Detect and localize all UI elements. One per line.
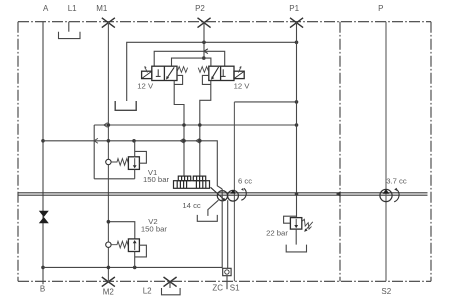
SV1 solenoid arrow [145,67,147,72]
wire: 6cc feed vertical through pump to S1 [233,102,235,281]
svg-text:150 bar: 150 bar [141,225,168,234]
V1 inlet vertical [134,141,136,157]
wire: SV2 outlet down with jog [200,81,211,177]
flow divider block [174,176,210,188]
node dot P1/H5 [295,41,299,45]
V1 spring [111,159,128,166]
arrow on H4 at box [94,138,98,143]
plug X at M1 [102,18,115,28]
svg-text:L1: L1 [68,4,77,13]
SV1 blocked symbol [156,69,161,76]
SV1 flow diagonal [167,67,174,77]
flow arrow on Ha at P2 drop [204,49,208,54]
node dot A line / H4 [41,139,45,143]
ZC sensor square [223,268,231,275]
tank symbol at L1 [59,22,81,39]
relief valve V1 [106,141,147,179]
SV2 flow diagonal [212,67,218,78]
V2 gauge circle on M line [106,242,111,247]
svg-text:L2: L2 [143,287,152,296]
SV2 solenoid arrow [238,67,240,72]
arrow on H2 before M1 [104,123,108,128]
tank symbol on P2 branch [115,101,136,110]
svg-text:3.7 cc: 3.7 cc [386,176,407,185]
V2 feed branch [108,222,134,239]
wire: left box bottom [94,178,135,180]
pump 3.7cc triangle [383,189,390,193]
svg-text:P2: P2 [195,4,205,13]
node dot H3/P1 [295,100,299,104]
svg-text:12 V: 12 V [137,81,154,90]
wire: Hb header to inner valve squares [172,58,211,66]
pump 6cc triangle [230,190,236,194]
relief valve V2 [106,220,147,268]
node dot drain/V2 outlet [133,266,137,270]
wire: H5 horizontal P2/P1 link at y=42.3 [127,42,297,101]
svg-text:S1: S1 [230,284,240,293]
main pressure double line [18,193,428,195]
tank symbol under 22bar valve [286,245,306,252]
svg-text:B: B [40,285,45,294]
SV1 return spring [177,67,188,73]
node dot P2/H5 [202,41,206,45]
svg-text:M1: M1 [96,4,108,13]
node dots on H2 [107,123,111,127]
SV1 drain hook [174,75,182,84]
plug X at M2 [102,277,115,287]
node dots on H4 [107,139,111,143]
pump 3.7cc circle [380,189,392,201]
svg-text:M2: M2 [103,288,115,297]
shut-off valve on B line (filled bowtie) [39,211,49,223]
solenoid valve SV1 (left, 12V) [142,66,177,80]
enclosure boundary (dash-dot frame) [18,22,431,282]
wire: M1-M2 vertical line [107,22,109,282]
arrow on H4 before right divider line [196,138,200,143]
V2 pilot hook [135,245,147,257]
V2 body [128,239,139,252]
wire: SV1 outlet down with jog [174,81,184,177]
V1 gauge circle on M line [106,159,111,164]
relief valve 22 bar [284,216,313,252]
wire: A-B vertical line [42,22,44,285]
tank symbol under pump [197,215,217,221]
plug X at P1 [290,18,303,28]
outlet [295,229,297,245]
SV2 blocked symbol [221,69,226,76]
wire: Ha header to outer valve squares [154,51,225,66]
V1 pilot hook [135,151,147,163]
svg-text:A: A [43,4,49,13]
V2 internal arrow [134,243,136,250]
node dot P1/main line [295,192,299,196]
internal arrow [295,219,297,226]
adjust arrow [306,222,313,230]
svg-text:14 cc: 14 cc [182,201,201,210]
wire: bottom drain line B to ZC [43,266,222,268]
svg-text:S2: S2 [381,287,391,296]
V1 outlet vertical [134,169,136,178]
svg-text:22 bar: 22 bar [266,228,288,237]
node dot B line / drain line [41,266,45,270]
pump 6cc circle [228,190,239,201]
svg-text:12 V: 12 V [234,81,251,90]
pilot loop [284,216,297,223]
wire: H2 horizontal at y=125 [94,124,296,126]
wire: P vertical through 3.7cc pump to S2 [385,22,387,282]
svg-text:P: P [378,4,383,13]
pump 3.7cc rotation arc [394,190,399,202]
spring diagonal [302,219,312,229]
pump drain leader [208,200,219,216]
wire: P1 vertical [296,22,298,218]
V2 spring [111,241,128,248]
wire: P2 drop line [203,22,205,58]
node dot P2 drop / Hb [202,56,206,60]
flow arrow on main line at divider [336,191,341,197]
plug X at P2 [198,18,211,28]
arrow on H4 before left divider line [180,138,184,143]
divider outlet diagonal to pump [211,187,225,199]
V1 internal arrow [134,158,136,165]
SV2 drain hook [202,75,210,84]
SV2 return spring [198,67,209,73]
wire: H4 horizontal at y=140.8 [43,141,222,189]
tank symbol at L2 [162,281,181,295]
body [290,218,301,230]
wire: ZC to border [226,276,228,290]
V2 outlet vertical [134,252,136,268]
pump 14cc circle [217,191,227,201]
wire: pump drain pair to ZC [221,189,223,268]
svg-text:150 bar: 150 bar [143,175,170,184]
node dot drain/M line [107,266,111,270]
svg-text:ZC: ZC [212,284,223,293]
V1 body [128,157,139,170]
section divider dash-dot [339,22,341,282]
wire: left box side vertical [93,125,95,179]
plug X at L2 [164,277,177,287]
solenoid valve SV2 (right, 12V) [209,66,244,80]
wire: H3 branch 6cc to P1 [234,101,296,103]
svg-text:P1: P1 [289,4,299,13]
pump 6cc rotation arc [241,188,246,200]
svg-text:6 cc: 6 cc [238,176,252,185]
